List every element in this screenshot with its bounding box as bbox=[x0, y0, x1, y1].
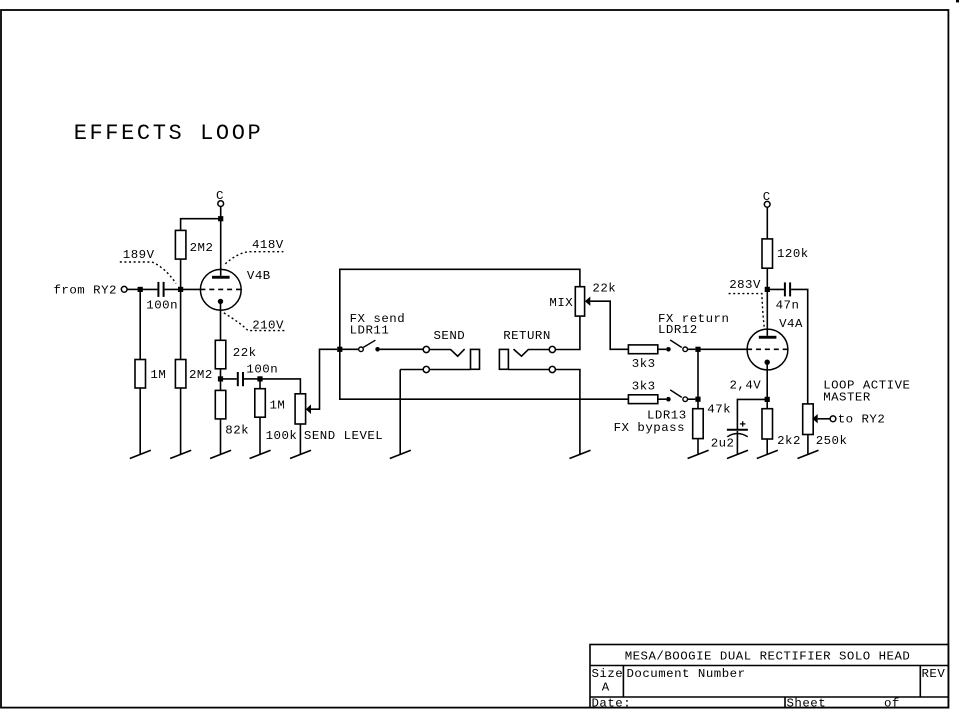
supply terminal C (V4A) bbox=[763, 190, 771, 207]
wire: 250k bottom to ground bbox=[807, 435, 809, 455]
svg-text:189V: 189V bbox=[123, 248, 155, 262]
svg-text:of: of bbox=[884, 697, 900, 711]
svg-text:2u2: 2u2 bbox=[711, 436, 735, 450]
wire: V4A plate to supply junction bbox=[766, 292, 768, 336]
svg-text:250k: 250k bbox=[816, 434, 848, 448]
resistor 1M (input load) bbox=[135, 360, 166, 389]
svg-text:V4A: V4A bbox=[779, 317, 803, 331]
wire: 120k to terminal C bbox=[766, 207, 768, 239]
svg-text:MASTER: MASTER bbox=[823, 390, 871, 404]
wire: 2u2 to ground bbox=[736, 431, 738, 455]
svg-text:MESA/BOOGIE DUAL RECTIFIER SOL: MESA/BOOGIE DUAL RECTIFIER SOLO HEAD bbox=[625, 650, 911, 664]
jack RETURN bbox=[499, 329, 555, 373]
svg-text:2M2: 2M2 bbox=[189, 368, 213, 382]
ground (SEND jack) bbox=[390, 450, 411, 458]
wire: junction down to 1M bbox=[259, 379, 261, 389]
svg-text:Size: Size bbox=[592, 667, 624, 681]
junction: V4B grid node bbox=[178, 287, 183, 292]
ground (RETURN jack) bbox=[570, 450, 591, 458]
wire: cathode junction to send cap bbox=[221, 378, 237, 380]
triode V4A bbox=[747, 317, 803, 370]
junction: V4B plate supply node bbox=[218, 216, 223, 221]
svg-text:V4B: V4B bbox=[247, 269, 271, 283]
ground (send level pot) bbox=[290, 450, 311, 458]
svg-text:RETURN: RETURN bbox=[503, 329, 551, 343]
svg-text:LDR11: LDR11 bbox=[350, 323, 390, 337]
junction: send level node bbox=[257, 376, 262, 381]
svg-text:Date:: Date: bbox=[592, 697, 632, 711]
ground (1M send) bbox=[250, 450, 271, 458]
svg-text:3k3: 3k3 bbox=[632, 357, 656, 371]
switch LDR11 (FX send) bbox=[342, 312, 405, 352]
svg-text:2M2: 2M2 bbox=[190, 241, 214, 255]
capacitor 47n (loop active master feed) bbox=[776, 282, 800, 312]
ground (82k) bbox=[210, 450, 231, 458]
wire: LDR11 to SEND jack tip bbox=[380, 348, 423, 350]
svg-text:Sheet: Sheet bbox=[787, 697, 827, 711]
svg-text:MIX: MIX bbox=[549, 296, 573, 310]
supply terminal C (V4B) bbox=[216, 189, 224, 206]
wire: 250k wiper to RY2 terminal bbox=[818, 418, 830, 420]
resistor 2k2 (V4A cathode) bbox=[762, 409, 801, 448]
jack SEND bbox=[400, 329, 479, 373]
junction: V4A cathode node bbox=[765, 397, 770, 402]
resistor 1M (send divider) bbox=[255, 389, 286, 418]
wire: 1M to ground bbox=[139, 388, 141, 455]
potentiometer 100k SEND LEVEL bbox=[266, 394, 384, 443]
potentiometer 250k LOOP ACTIVE MASTER bbox=[803, 379, 911, 449]
junction: input node bbox=[138, 287, 143, 292]
svg-text:from RY2: from RY2 bbox=[54, 283, 118, 297]
triode V4B bbox=[200, 269, 270, 310]
ground (2k2) bbox=[757, 450, 778, 458]
wire: dry node down and across to bypass resistor bbox=[340, 349, 629, 399]
svg-text:100n: 100n bbox=[246, 363, 278, 377]
svg-text:100k: 100k bbox=[266, 429, 298, 443]
ground (2u2) bbox=[727, 450, 748, 458]
svg-text:418V: 418V bbox=[252, 238, 284, 252]
node: to RY2 output terminal bbox=[830, 412, 885, 426]
wire: junction to send level pot top bbox=[260, 379, 300, 394]
wire: terminal C down to plate bbox=[220, 207, 222, 276]
svg-text:1M: 1M bbox=[270, 398, 286, 412]
svg-text:A: A bbox=[602, 681, 610, 695]
wire: plate node up to 120k bbox=[766, 268, 768, 289]
svg-text:120k: 120k bbox=[777, 247, 809, 261]
svg-text:210V: 210V bbox=[252, 319, 284, 333]
svg-text:to RY2: to RY2 bbox=[838, 412, 886, 426]
wire: SEND jack sleeve contact to ground bbox=[399, 370, 401, 455]
wire: upper 2M2 top to plate supply junction bbox=[181, 219, 221, 231]
svg-text:47n: 47n bbox=[776, 298, 800, 312]
ground (47k) bbox=[688, 450, 709, 458]
resistor 22k (V4B cathode) bbox=[215, 340, 256, 369]
wire: 47k to ground bbox=[697, 439, 699, 455]
wire: grid junction to V4B grid bbox=[181, 288, 201, 290]
svg-text:2k2: 2k2 bbox=[777, 434, 801, 448]
wire: input terminal to first junction bbox=[127, 288, 140, 290]
wire: 47n to 250k pot top bbox=[791, 289, 808, 404]
wire: V4A cathode down bbox=[766, 364, 768, 409]
wire: RETURN sleeve contact to ground bbox=[555, 370, 580, 455]
wire: V4B cathode to 22k bbox=[220, 303, 222, 340]
wire: RETURN tip to MIX pot bottom bbox=[555, 316, 580, 349]
capacitor 100n (input coupling) bbox=[146, 282, 178, 313]
resistor 3k3 (FX return) bbox=[628, 345, 657, 371]
wire: send cap to 1M junction bbox=[244, 378, 260, 380]
svg-text:EFFECTS LOOP: EFFECTS LOOP bbox=[74, 121, 264, 146]
ground (lower 2M2) bbox=[170, 450, 191, 458]
wire: MIX wiper to return resistor bbox=[590, 301, 628, 349]
resistor 82k bbox=[215, 390, 249, 437]
svg-text:Document Number: Document Number bbox=[627, 667, 746, 681]
wire: input junction down to 1M bbox=[139, 289, 141, 359]
title block bbox=[590, 645, 948, 708]
resistor 2M2 (grid leak lower) bbox=[175, 360, 212, 389]
switch LDR13 (FX bypass) bbox=[614, 390, 696, 435]
resistor 120k (V4A plate load) bbox=[762, 239, 809, 268]
svg-text:283V: 283V bbox=[729, 278, 761, 292]
junction: V4A plate node bbox=[765, 287, 770, 292]
wire: 82k to ground bbox=[220, 419, 222, 455]
wire: 22k to cathode junction bbox=[220, 369, 222, 391]
svg-text:LDR12: LDR12 bbox=[658, 323, 698, 337]
ground (1M) bbox=[130, 450, 151, 458]
node: from RY2 input terminal bbox=[54, 283, 128, 297]
potentiometer 22k MIX bbox=[549, 282, 616, 316]
callout 189V bbox=[120, 262, 176, 284]
svg-text:47k: 47k bbox=[707, 402, 731, 416]
wire: pot bottom to ground bbox=[299, 424, 301, 455]
wire: plate node to 47n bbox=[767, 288, 784, 290]
resistor 3k3 (FX bypass) bbox=[628, 379, 657, 403]
wire: grid junction down to lower 2M2 bbox=[180, 289, 182, 359]
ground (250k) bbox=[798, 450, 819, 458]
wire: lower 2M2 to ground bbox=[180, 388, 182, 455]
svg-text:22k: 22k bbox=[592, 282, 616, 296]
wire: grid junction up to upper 2M2 bbox=[180, 259, 182, 289]
svg-text:FX bypass: FX bypass bbox=[614, 421, 685, 435]
wire: junction to coupling cap bbox=[140, 288, 157, 290]
wire: 2k2 to ground bbox=[766, 439, 768, 455]
wire: grid node to V4A grid bbox=[698, 348, 747, 350]
capacitor 2u2 (cathode bypass, electrolytic) bbox=[711, 421, 748, 450]
junction: bypass node on grid line bbox=[695, 397, 700, 402]
svg-text:SEND: SEND bbox=[434, 329, 466, 343]
wire: cathode node to 2u2 bbox=[737, 399, 767, 429]
svg-text:1M: 1M bbox=[150, 368, 166, 382]
svg-text:82k: 82k bbox=[225, 423, 249, 437]
junction: V4A grid node bbox=[695, 347, 700, 352]
wire: 1M to ground bbox=[259, 417, 261, 454]
resistor 2M2 (plate feedback upper) bbox=[175, 230, 213, 259]
svg-text:22k: 22k bbox=[233, 346, 257, 360]
wire: send level wiper to dry node bbox=[311, 349, 337, 409]
svg-text:100n: 100n bbox=[146, 299, 178, 313]
callout 418V bbox=[225, 252, 283, 264]
wire: dry node up and across to MIX pot top bbox=[340, 269, 580, 349]
switch LDR12 (FX return) bbox=[658, 312, 730, 352]
junction: V4B cathode divider node bbox=[218, 376, 223, 381]
wire: grid node down to bypass node bbox=[697, 349, 699, 408]
capacitor 100n (send coupling) bbox=[238, 363, 278, 387]
wire: cap to grid junction bbox=[165, 288, 181, 290]
resistor 47k (grid leak V4A) bbox=[693, 402, 731, 438]
callout 283V bbox=[729, 294, 765, 329]
svg-text:2,4V: 2,4V bbox=[730, 379, 762, 393]
junction: dry signal node bbox=[337, 347, 342, 352]
svg-text:SEND LEVEL: SEND LEVEL bbox=[304, 429, 383, 443]
callout 210V bbox=[224, 313, 286, 331]
svg-text:3k3: 3k3 bbox=[632, 379, 656, 393]
svg-text:REV: REV bbox=[922, 667, 946, 681]
